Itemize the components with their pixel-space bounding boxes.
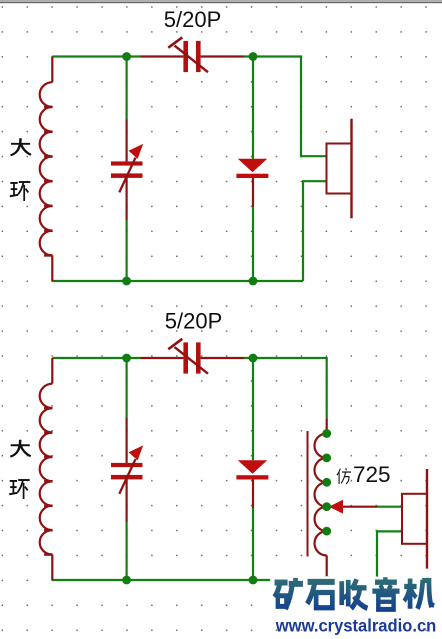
svg-text:www.crystalradio.cn: www.crystalradio.cn	[275, 615, 436, 635]
svg-text:5/20P: 5/20P	[165, 308, 223, 333]
svg-text:725: 725	[353, 462, 391, 487]
svg-text:5/20P: 5/20P	[164, 7, 222, 32]
